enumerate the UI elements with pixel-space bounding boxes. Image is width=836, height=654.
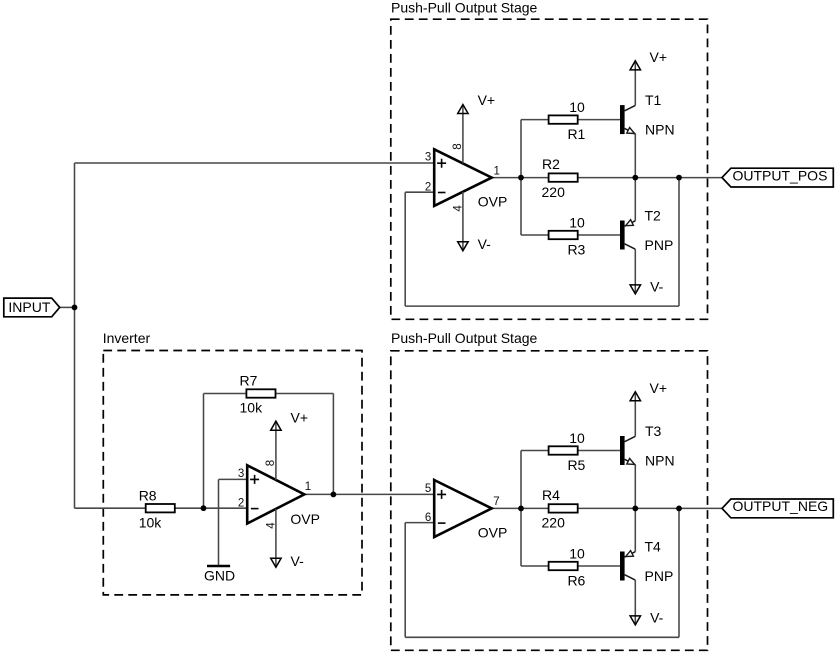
wire: U3 output to R4: [492, 507, 549, 509]
power symbol V+ above T3: [630, 392, 640, 401]
svg-text:220: 220: [542, 515, 566, 531]
wire: T4 collector to V-: [634, 580, 636, 624]
power symbol V+ above U1: [458, 105, 468, 114]
junction: U1 output node: [518, 175, 524, 181]
wire: output node to feedback tap bottom: [635, 507, 679, 509]
op-amp U2 V- power pin wire: [275, 509, 277, 566]
svg-text:V+: V+: [478, 92, 496, 108]
svg-text:PNP: PNP: [645, 568, 674, 584]
power symbol V+ above U2: [271, 421, 281, 430]
svg-text:V-: V-: [291, 553, 305, 569]
svg-text:T2: T2: [645, 208, 662, 224]
wire: feedback to R7 left: [204, 393, 247, 395]
svg-text:V-: V-: [650, 609, 664, 625]
svg-text:10: 10: [569, 99, 585, 115]
wire: U3 feedback bottom horizontal: [405, 636, 679, 638]
svg-text:3: 3: [238, 468, 244, 480]
dashed box: Inverter: [103, 351, 362, 595]
wire: R1-R3 branch vertical: [520, 120, 522, 235]
dashed box: Push-Pull Output Stage (top): [391, 19, 708, 319]
svg-text:10: 10: [569, 214, 585, 230]
svg-text:3: 3: [425, 151, 431, 163]
wire: T2 emitter vertical: [634, 178, 636, 221]
resistor R8 body: [146, 504, 175, 512]
wire: R5 to T3 base: [578, 450, 620, 452]
svg-text:GND: GND: [204, 568, 235, 584]
transistor T3 base bar: [620, 436, 625, 465]
op-amp U2 triangle: [247, 465, 304, 523]
net flag OUTPUT_POS: [722, 167, 833, 187]
resistor R1 body: [549, 115, 578, 123]
transistor T1 emitter arrow: [627, 128, 635, 134]
transistor T3 emitter diagonal: [625, 459, 636, 464]
junction: push-pull emitter node bottom: [632, 506, 638, 512]
svg-text:OUTPUT_POS: OUTPUT_POS: [733, 167, 828, 183]
op-amp U1 V+ power pin wire: [462, 105, 464, 163]
junction: push-pull emitter node top: [632, 175, 638, 181]
svg-text:R1: R1: [567, 126, 585, 142]
svg-text:V+: V+: [650, 49, 668, 65]
svg-text:OVP: OVP: [290, 511, 320, 527]
transistor T2 emitter diagonal: [625, 221, 636, 226]
transistor T1 collector diagonal: [625, 105, 636, 110]
svg-text:6: 6: [425, 512, 431, 524]
transistor T4 collector diagonal: [625, 575, 636, 580]
svg-text:OVP: OVP: [478, 193, 508, 209]
ground symbol GND: [207, 565, 230, 567]
resistor R7 body: [246, 389, 275, 397]
wire: U1 output to R2: [492, 177, 549, 179]
resistor R5 body: [549, 446, 578, 454]
net flag OUTPUT_NEG: [722, 498, 833, 518]
svg-text:R6: R6: [567, 572, 585, 588]
resistor R2 body: [549, 173, 578, 181]
wire: T3 emitter vertical: [634, 465, 636, 509]
svg-text:OVP: OVP: [478, 524, 508, 540]
svg-text:8: 8: [265, 460, 277, 466]
wire: T2 collector to V-: [634, 249, 636, 293]
junction: feedback tap node top: [676, 175, 682, 181]
power symbol V- below U1: [458, 242, 468, 251]
svg-text:2: 2: [425, 181, 431, 193]
wire: T1 emitter vertical: [634, 134, 636, 178]
op-amp U3 minus input mark: [438, 522, 446, 524]
svg-text:Inverter: Inverter: [103, 330, 151, 346]
svg-text:7: 7: [493, 496, 499, 508]
wire: output node to feedback tap: [635, 177, 679, 179]
resistor R6 body: [549, 562, 578, 570]
op-amp U1 V- power pin wire: [462, 192, 464, 250]
op-amp U3 triangle: [434, 480, 492, 537]
transistor T2 collector diagonal: [625, 244, 636, 249]
transistor T3 collector diagonal: [625, 436, 636, 441]
wire: R6 to T4 base: [578, 565, 620, 567]
wire: feedback up from R8 node: [203, 394, 205, 509]
svg-text:10k: 10k: [240, 399, 264, 415]
junction: R8/R7/U2 inverting node: [201, 505, 207, 511]
svg-text:V-: V-: [478, 236, 492, 252]
svg-text:1: 1: [305, 481, 311, 493]
wire: U1 feedback left vertical: [404, 192, 406, 306]
transistor T3 emitter arrow: [627, 458, 635, 464]
wire: INPUT trunk vertical: [74, 163, 76, 508]
svg-text:Push-Pull Output Stage: Push-Pull Output Stage: [391, 330, 538, 346]
wire: GND to U2 pin 3: [219, 478, 248, 480]
transistor T1 base bar: [620, 105, 625, 134]
power symbol V- below T4: [630, 616, 640, 625]
wire: U1 feedback bottom horizontal: [405, 305, 679, 307]
svg-text:PNP: PNP: [645, 237, 674, 253]
power symbol V- below T2: [630, 285, 640, 294]
svg-text:R5: R5: [567, 457, 585, 473]
wire: R5-R6 branch vertical: [520, 451, 522, 567]
wire: U1 feedback right vertical: [678, 178, 680, 307]
wire: R3 to T2 base: [578, 234, 620, 236]
svg-text:T1: T1: [645, 92, 662, 108]
wire: R7 right to down leg: [276, 393, 334, 395]
svg-text:10k: 10k: [139, 515, 163, 531]
wire: INPUT to op-amp U1 pin 3 horizontal: [75, 162, 435, 164]
svg-text:V-: V-: [650, 278, 664, 294]
wire: U1 feedback pin2 stub: [405, 191, 434, 193]
svg-text:R4: R4: [542, 487, 560, 503]
svg-text:INPUT: INPUT: [8, 299, 50, 315]
op-amp U3 plus input mark: [437, 490, 446, 499]
transistor T4 emitter arrow: [626, 551, 634, 557]
power symbol V+ above T1: [630, 61, 640, 70]
op-amp U2 minus input mark: [251, 508, 259, 510]
transistor T1 emitter diagonal: [625, 128, 636, 133]
svg-text:T4: T4: [645, 539, 662, 555]
svg-text:4: 4: [265, 522, 277, 529]
junction: U3 output node: [518, 506, 524, 512]
op-amp U2 V+ power pin wire: [275, 422, 277, 480]
transistor T2 base bar: [620, 221, 625, 250]
wire: to OUTPUT_NEG flag: [679, 507, 722, 509]
wire: U3 feedback left vertical: [404, 523, 406, 638]
wire: feedback down to U2 output: [332, 394, 334, 495]
wire: U2 output to U3 pin 5: [304, 493, 434, 495]
op-amp U1 minus input mark: [438, 192, 446, 194]
svg-text:10: 10: [569, 545, 585, 561]
svg-text:T3: T3: [645, 423, 662, 439]
wire: R2 to output node: [578, 177, 636, 179]
svg-text:5: 5: [425, 483, 431, 495]
wire: branch to R6: [521, 565, 549, 567]
svg-text:10: 10: [569, 430, 585, 446]
resistor R3 body: [549, 231, 578, 239]
net flag INPUT: [4, 298, 75, 317]
svg-text:220: 220: [542, 184, 566, 200]
resistor R4 body: [549, 504, 578, 512]
transistor T4 emitter diagonal: [625, 552, 636, 557]
wire: T3 collector to V+: [634, 393, 636, 436]
svg-text:NPN: NPN: [645, 452, 675, 468]
wire: branch to R1: [521, 119, 549, 121]
op-amp U2 plus input mark: [250, 475, 259, 484]
power symbol V- below U2: [271, 558, 281, 567]
wire: R4 to output node: [578, 507, 636, 509]
svg-text:NPN: NPN: [645, 122, 675, 138]
svg-text:V+: V+: [291, 410, 309, 426]
wire: branch to R3: [521, 234, 549, 236]
wire: U3 feedback right vertical: [678, 508, 680, 637]
wire: T1 collector to V+: [634, 62, 636, 105]
wire: T4 emitter vertical: [634, 508, 636, 551]
transistor T2 emitter arrow: [626, 220, 634, 226]
wire: GND vertical: [218, 479, 220, 566]
svg-text:R7: R7: [240, 372, 258, 388]
dashed box: Push-Pull Output Stage (bottom): [391, 351, 708, 651]
wire: to OUTPUT_POS flag: [679, 177, 722, 179]
svg-text:Push-Pull Output Stage: Push-Pull Output Stage: [391, 0, 538, 15]
wire: U3 feedback pin6 stub: [405, 522, 434, 524]
svg-text:1: 1: [494, 166, 500, 178]
svg-text:R2: R2: [542, 156, 560, 172]
svg-text:8: 8: [452, 143, 464, 149]
svg-text:OUTPUT_NEG: OUTPUT_NEG: [733, 498, 829, 514]
wire: R8 to U2 pin 2: [175, 507, 247, 509]
wire: R1 to T1 base: [578, 119, 620, 121]
svg-text:2: 2: [238, 497, 244, 509]
wire: INPUT to R8 horizontal: [75, 507, 146, 509]
op-amp U1 triangle: [434, 149, 492, 206]
svg-text:R8: R8: [139, 487, 157, 503]
svg-text:4: 4: [452, 205, 464, 212]
svg-text:V+: V+: [650, 380, 668, 396]
wire: branch to R5: [521, 450, 549, 452]
junction: feedback tap node bottom: [676, 506, 682, 512]
junction: U2 output node: [331, 492, 337, 498]
transistor T4 base bar: [620, 552, 625, 581]
op-amp U1 plus input mark: [437, 159, 446, 168]
svg-text:R3: R3: [567, 241, 585, 257]
junction: INPUT node: [72, 305, 78, 311]
